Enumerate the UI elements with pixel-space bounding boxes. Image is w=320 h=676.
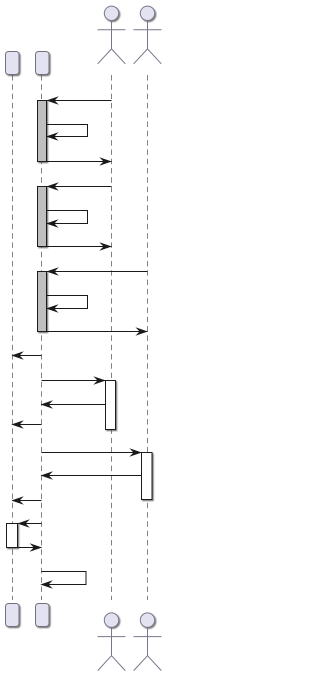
activation bar E on L4 (white) — [142, 453, 153, 500]
participant box P2 top — [36, 52, 50, 75]
message M5 (L4 to bar C) — [46, 267, 147, 276]
actor A2 bottom — [134, 613, 162, 671]
lifeline L4 — [147, 75, 149, 600]
actor A2 top — [134, 6, 162, 64]
message M6 (bar C to L4) — [47, 327, 148, 336]
self message S3 on bar C — [46, 296, 88, 313]
participant box P1 top — [6, 52, 20, 75]
participant box P2 bottom — [36, 604, 50, 627]
message M11 (L2 to bar E) — [42, 448, 142, 457]
message M13 (L2 to L1) — [11, 496, 41, 505]
message M9 (bar D to L2) — [41, 400, 106, 409]
activation bar F on L1 (white) — [7, 524, 18, 548]
message M12 (bar E to L2) — [41, 471, 142, 480]
message M14 (L2 to bar F) — [17, 519, 41, 528]
lifeline L1 — [12, 75, 14, 600]
activation bar C on L2 (gray) — [38, 272, 47, 332]
message M1 (L3 to bar A) — [46, 96, 111, 105]
lifeline L3 — [111, 75, 113, 600]
actor A1 top — [98, 6, 126, 64]
self message S2 on bar B — [46, 211, 88, 228]
activation bar D on L3 (white) — [106, 381, 116, 430]
lifeline L2 — [41, 75, 43, 600]
self message S4 on L2 — [40, 572, 86, 589]
message M4 (bar B to L3) — [47, 242, 112, 251]
message M2 (bar A to L3) — [47, 157, 112, 166]
self message S1 on bar A — [46, 125, 88, 141]
participant box P1 bottom — [6, 604, 20, 627]
message M10 (L2 to L1) — [11, 420, 41, 429]
message M3 (L3 to bar B) — [46, 182, 111, 191]
message M8 (L2 to bar D) — [42, 376, 106, 385]
message M15 (bar F to L2) — [18, 543, 43, 552]
activation bar A on L2 (gray) — [38, 101, 47, 162]
message M7 (L2 to L1) — [11, 351, 41, 360]
activation bar B on L2 (gray) — [38, 187, 47, 247]
actor A1 bottom — [98, 613, 126, 671]
